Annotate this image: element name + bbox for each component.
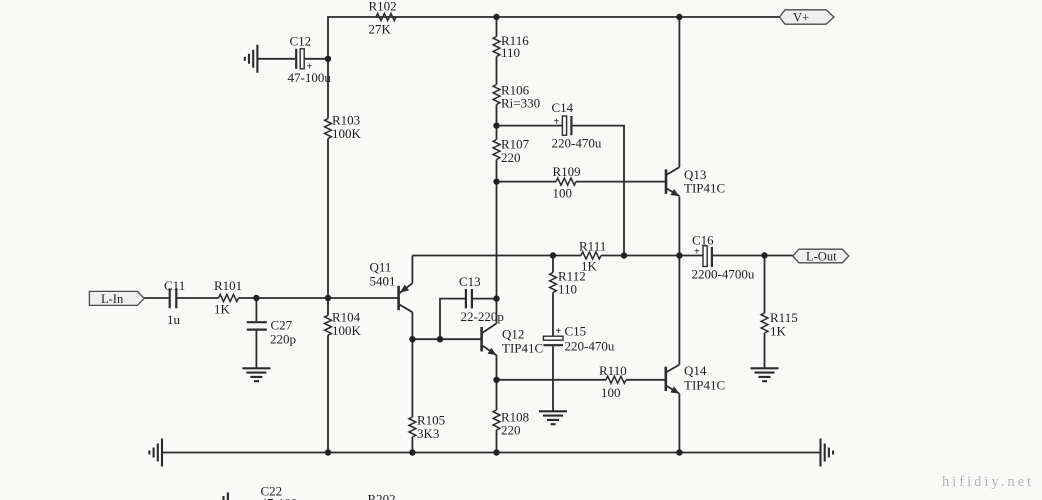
svg-text:220-470u: 220-470u (565, 339, 615, 354)
junction dot mid rail / C14 drop (621, 252, 627, 258)
transistor Q12 TIP41C (482, 299, 544, 380)
svg-text:Ri=330: Ri=330 (501, 96, 540, 111)
transistor Q13 TIP41C (666, 167, 725, 196)
wire: top rail junction down to R116 (496, 17, 498, 37)
svg-text:C14: C14 (552, 100, 574, 115)
wire: Q11 collector down to junction (411, 312, 413, 339)
svg-text:1u: 1u (167, 312, 181, 327)
junction dot mid rail / Q13-Q14 (676, 252, 682, 258)
resistor R202 (second channel, cut off) (368, 492, 396, 500)
resistor R115 1K (761, 310, 798, 339)
svg-text:220: 220 (501, 150, 521, 165)
capacitor C15 220-470u (543, 324, 614, 354)
wire: mid rail left segment (412, 255, 581, 257)
wire: junction down to R112 (552, 256, 554, 273)
svg-text:TIP41C: TIP41C (502, 341, 543, 356)
junction dot bottom rail / R104 (325, 449, 331, 455)
resistor R102 (369, 0, 397, 37)
wire: R107 to R109 junction (496, 160, 498, 182)
junction dot bottom rail / R108 (493, 449, 499, 455)
wire: Q14 collector up to mid rail (678, 256, 680, 365)
resistor R112 110 (550, 269, 586, 297)
svg-text:2200-4700u: 2200-4700u (692, 267, 755, 282)
capacitor C13 22-220p (459, 274, 504, 324)
capacitor C14 220-470u (552, 100, 602, 151)
ground (below C27) (242, 368, 270, 381)
wire: junction down to R115 (764, 256, 766, 314)
svg-text:TIP41C: TIP41C (684, 378, 725, 393)
wire: C11 to R101 (178, 297, 219, 299)
wire: R112 bottom to C15 top (552, 293, 554, 337)
resistor R101 (214, 278, 242, 317)
input port flag L-In (89, 291, 144, 305)
svg-text:Q11: Q11 (370, 260, 392, 275)
wire: C13 left drop from collector row (440, 299, 465, 340)
svg-text:110: 110 (558, 282, 577, 297)
junction dot R106/R107/C14 (493, 122, 499, 128)
transistor Q11 5401 (370, 260, 413, 313)
junction dot Q12 emitter/R110/R108 (493, 377, 499, 383)
svg-text:C12: C12 (290, 34, 312, 49)
output port flag L-Out (793, 249, 849, 263)
junction dot C13 left drop (437, 336, 443, 342)
svg-text:R110: R110 (599, 363, 627, 378)
wire: R109 left lead (497, 181, 557, 183)
resistor R106 (493, 83, 540, 111)
resistor R108 220 (493, 410, 529, 438)
junction dot mid rail / R112 (550, 252, 556, 258)
wire: R116 to R106 (496, 57, 498, 85)
svg-text:220p: 220p (270, 332, 296, 347)
wire: Q13 emitter down to mid rail (678, 197, 680, 256)
svg-text:1K: 1K (770, 324, 787, 339)
svg-text:100: 100 (601, 385, 621, 400)
wire: L-In flag to C11 (144, 297, 169, 299)
svg-text:Q14: Q14 (684, 363, 707, 378)
junction dot R101/C27 (253, 295, 259, 301)
wire: junction down to C27 top plate (255, 298, 257, 321)
wire: Q13 collector up to top rail (678, 17, 680, 167)
svg-text:110: 110 (501, 45, 520, 60)
svg-text:hifidiy.net: hifidiy.net (942, 474, 1034, 490)
resistor R107 (493, 137, 530, 166)
svg-text:TIP41C: TIP41C (684, 181, 725, 196)
svg-text:R101: R101 (214, 278, 242, 293)
wire: C27 bottom plate down to ground (255, 331, 257, 368)
svg-text:100: 100 (553, 186, 573, 201)
resistor R104 (325, 310, 362, 339)
junction dot bottom rail / Q14 emitter (676, 449, 682, 455)
svg-text:220: 220 (501, 423, 521, 438)
wire: junction down to R104 top (327, 298, 329, 315)
wire: R106 to C14 junction (496, 105, 498, 126)
svg-text:V+: V+ (793, 11, 809, 25)
ground (bottom left, sideways) (149, 439, 162, 467)
svg-text:C11: C11 (164, 278, 185, 293)
svg-text:100K: 100K (332, 126, 362, 141)
wire: R109 junction down to C13 junction (crosses mid rail) (496, 182, 498, 299)
wire: Q11 emitter up to mid rail (411, 256, 413, 284)
junction dot mid rail / R115 (761, 252, 767, 258)
svg-text:C16: C16 (692, 233, 714, 248)
svg-text:5401: 5401 (370, 274, 396, 289)
junction dot R107/R109 (493, 178, 499, 184)
resistor R111 1K (579, 239, 606, 274)
svg-text:27K: 27K (369, 22, 392, 37)
wire: mid rail C16 to L-Out flag (713, 255, 793, 257)
svg-text:C27: C27 (271, 318, 293, 333)
svg-text:47-100u: 47-100u (261, 496, 305, 500)
ground (below C15) (539, 411, 567, 424)
transistor Q14 TIP41C (666, 363, 725, 394)
wire: C14 left lead (497, 125, 563, 127)
svg-text:+: + (694, 247, 700, 258)
svg-text:R109: R109 (553, 164, 581, 179)
wire: R104 bottom to bottom rail (327, 335, 329, 452)
wire: C14 junction to R107 (496, 126, 498, 140)
wire: R103 bottom to input row junction (327, 139, 329, 299)
junction dot input row / R103-R104 column (325, 295, 331, 301)
wire: junction down to R105 top (411, 339, 413, 417)
svg-text:R111: R111 (579, 239, 606, 254)
wire: top V+ rail with corner down to C12 junction (328, 17, 780, 59)
wire: Q14 emitter down to bottom rail (678, 394, 680, 453)
svg-text:3K3: 3K3 (417, 426, 439, 441)
junction dot C12/R103 (325, 56, 331, 62)
wire: junction down to R103 top (327, 59, 329, 119)
junction dot Q11 collector / R105 (409, 336, 415, 342)
svg-text:1K: 1K (214, 302, 231, 317)
power flag V+ (780, 10, 835, 25)
wire: R105 bottom to bottom rail (411, 437, 413, 453)
wire: R109 right lead to Q13 base (576, 181, 666, 183)
wire: C15 bottom to ground (552, 346, 554, 411)
ground (bottom right, sideways) (821, 439, 834, 467)
ground (left of C12) (245, 45, 258, 73)
capacitor C12 47-100u (288, 34, 332, 86)
svg-text:+: + (554, 117, 560, 128)
resistor R109 (553, 164, 581, 201)
wire: C13 right plate to column junction (473, 298, 497, 300)
svg-text:47-100u: 47-100u (288, 70, 332, 85)
svg-text:1K: 1K (581, 259, 598, 274)
junction dot C13/Q12 collector (493, 295, 499, 301)
svg-text:C15: C15 (565, 324, 587, 339)
wire: bottom ground rail (162, 452, 821, 454)
wire: Q11 collector row to Q12 base (412, 338, 481, 340)
svg-text:R102: R102 (369, 0, 397, 14)
svg-text:100K: 100K (332, 323, 362, 338)
svg-text:L-In: L-In (101, 292, 124, 306)
svg-text:L-Out: L-Out (806, 250, 837, 264)
wire: R115 bottom to ground (764, 333, 766, 368)
svg-text:220-470u: 220-470u (552, 136, 602, 151)
wire: C12 right plate to junction (304, 58, 328, 60)
wire: R110 to Q14 base (626, 379, 666, 381)
capacitor C22 (second channel, cut off) (224, 484, 305, 500)
wire: junction down to R108 (496, 380, 498, 410)
resistor R110 100 (599, 363, 627, 400)
junction dot bottom rail / R105 (409, 449, 415, 455)
wire: R108 bottom to bottom rail (496, 430, 498, 453)
svg-text:C13: C13 (459, 274, 481, 289)
resistor R116 (493, 33, 529, 60)
wire: R110 row from Q12 emitter junction (497, 379, 607, 381)
wire: ground to C12 left plate (257, 58, 295, 60)
wire: R101 to Q11 base through junctions (239, 297, 399, 299)
resistor R103 (325, 113, 362, 142)
ground (below R115) (751, 368, 779, 381)
wire: C14 right lead down to mid rail (573, 126, 625, 256)
resistor R105 3K3 (409, 413, 445, 442)
svg-text:+: + (556, 326, 562, 337)
junction dot top rail / R116 column (493, 14, 499, 20)
svg-text:Q12: Q12 (502, 327, 524, 342)
wire: mid rail R111 to C16 (601, 255, 703, 257)
svg-text:R202: R202 (368, 492, 396, 500)
capacitor C27 220p (247, 318, 296, 347)
junction dot top rail / Q13 collector (676, 14, 682, 20)
capacitor C16 2200-4700u (692, 233, 755, 282)
capacitor C11 1u (164, 278, 185, 327)
